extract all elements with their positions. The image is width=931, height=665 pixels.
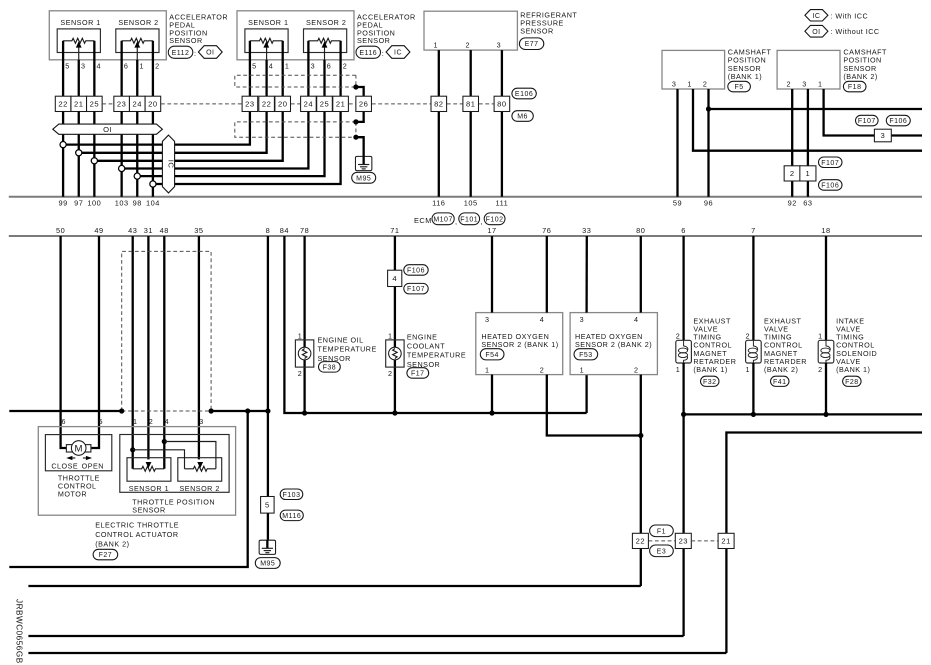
- svg-text:80: 80: [497, 99, 506, 108]
- svg-text:99: 99: [58, 199, 67, 208]
- svg-text:23: 23: [679, 536, 688, 545]
- TPS jumper pin1 to sensor2 left: [130, 447, 135, 452]
- svg-text:F101: F101: [460, 216, 478, 223]
- svg-text:,: ,: [480, 217, 483, 226]
- in-line connector boxes 22 23 with F1 E3 ovals: [649, 540, 676, 542]
- svg-text:M95: M95: [260, 561, 275, 568]
- svg-text:3: 3: [880, 131, 885, 140]
- svg-text:82: 82: [434, 99, 443, 108]
- connector ovals F106 F107 beside connector 4: [404, 265, 428, 276]
- svg-text:2: 2: [343, 62, 348, 71]
- svg-text:ENGINE: ENGINE: [407, 333, 438, 342]
- svg-text::: :: [194, 49, 197, 58]
- svg-text:F17: F17: [411, 370, 425, 377]
- svg-text:22: 22: [262, 99, 271, 108]
- svg-text:1: 1: [818, 80, 823, 89]
- svg-text:103: 103: [115, 199, 129, 208]
- svg-text:2: 2: [676, 332, 681, 341]
- svg-text:F107: F107: [821, 160, 839, 167]
- svg-text:2: 2: [465, 40, 470, 49]
- svg-text:OI: OI: [206, 50, 214, 57]
- svg-text:33: 33: [582, 226, 591, 235]
- svg-text:2: 2: [155, 62, 160, 71]
- svg-text:96: 96: [704, 199, 713, 208]
- legend OI hexagon Without ICC: [805, 25, 828, 37]
- svg-text:25: 25: [320, 99, 329, 108]
- svg-text:M6: M6: [517, 114, 528, 121]
- drop wire from branch to lower-left line 1: [9, 411, 247, 567]
- svg-text:E112: E112: [172, 50, 190, 57]
- ground oval M95 lower: [255, 558, 280, 569]
- connector ovals F107 F106 beside boxes 2 1: [819, 157, 843, 168]
- svg-text:OPEN: OPEN: [82, 461, 104, 470]
- svg-text:COOLANT: COOLANT: [407, 342, 445, 351]
- svg-text:1: 1: [687, 80, 692, 89]
- wire ECM pin 80 to F53 pin 4: [640, 236, 642, 313]
- wire from connector 26 down to shield dot 2: [356, 112, 364, 122]
- svg-text:3: 3: [672, 80, 677, 89]
- ground symbol M95 (throttle): [259, 540, 275, 554]
- throttle position sensor box: [120, 435, 229, 493]
- svg-text:1: 1: [746, 365, 751, 374]
- svg-text:: With ICC: : With ICC: [830, 11, 868, 20]
- svg-text:OI: OI: [103, 125, 112, 134]
- wire ECM pin 48 to TPS pin 4: [163, 236, 165, 469]
- svg-text:3: 3: [497, 40, 502, 49]
- right edge line to connector 21 down to lower-left line 4: [726, 433, 922, 654]
- svg-text:SENSOR 1: SENSOR 1: [129, 484, 169, 493]
- electric throttle control actuator outer box F27: [38, 427, 235, 516]
- camshaft position sensor bank2 box F18: [777, 50, 840, 89]
- svg-text:SENSOR 2 (BANK 1): SENSOR 2 (BANK 1): [481, 340, 558, 349]
- svg-text:5: 5: [65, 62, 70, 71]
- F53 connector oval: [574, 349, 598, 360]
- ECM bus line (lower): [9, 235, 922, 237]
- svg-text:84: 84: [280, 226, 289, 235]
- F32 connector oval: [701, 376, 720, 386]
- camshaft bank2 connector oval F18: [843, 81, 866, 92]
- svg-text:3: 3: [485, 315, 490, 324]
- bank2 pin1 wire elbow through connector 3 to right edge: [824, 89, 922, 136]
- F54 connector oval: [480, 349, 504, 360]
- dashed link E112-20 to E116-23: [161, 103, 242, 105]
- svg-text:3: 3: [311, 62, 316, 71]
- svg-text:21: 21: [74, 99, 83, 108]
- svg-text:SENSOR: SENSOR: [357, 36, 390, 45]
- svg-text:F53: F53: [579, 352, 593, 359]
- svg-text:F106: F106: [407, 267, 425, 274]
- throttle motor internal wires: [65, 447, 67, 449]
- bank2 pin3 wire to ECM pin 63: [807, 89, 809, 197]
- TPS sensor2 potentiometer: [185, 466, 216, 471]
- svg-text:,: ,: [455, 217, 458, 226]
- bank1 pin2 wire to ECM pin 96 with branch to right edge: [707, 89, 709, 197]
- svg-text:(BANK 1): (BANK 1): [693, 365, 727, 374]
- connector ovals F107 F106 above connector 3: [856, 115, 879, 126]
- exhaust valve timing control magnet retarder bank2 F41 (coil): [752, 236, 754, 340]
- return line corner up to HO2S bank2 pin 1: [585, 375, 587, 413]
- intake valve timing control solenoid valve bank1 F28 (coil): [825, 236, 827, 340]
- wire ECM pin 78 to oil temp sensor and return line: [303, 236, 305, 413]
- E112 sensor 1 potentiometer: [63, 38, 94, 43]
- wire ECM pin 84 elbow to sensor return line y=413: [284, 236, 586, 413]
- F54 pin1 wire to return line: [491, 375, 493, 413]
- svg-text:(BANK 2): (BANK 2): [95, 540, 129, 549]
- dashed link connector 23 to 21: [691, 540, 718, 542]
- svg-text:SENSOR 2 (BANK 2): SENSOR 2 (BANK 2): [575, 340, 652, 349]
- junction circles (option split) on E112 wires: [60, 142, 66, 148]
- shield junction dots lower pair: [353, 119, 358, 124]
- dashed link 82-81: [447, 103, 463, 105]
- svg-text:2: 2: [818, 365, 823, 374]
- solenoid return junction dots: [681, 412, 686, 417]
- svg-text:2: 2: [790, 169, 795, 178]
- svg-text:59: 59: [673, 199, 682, 208]
- refrigerant pressure sensor E77 box: [424, 11, 517, 50]
- svg-text:(BANK 1): (BANK 1): [836, 365, 870, 374]
- svg-text:20: 20: [278, 99, 287, 108]
- wire ECM pin 8 through branch to connector 5 and ground: [267, 236, 269, 497]
- svg-text:5: 5: [99, 417, 104, 426]
- E116 sensor 1 potentiometer: [250, 38, 283, 43]
- svg-text:SENSOR 2: SENSOR 2: [306, 18, 346, 27]
- wire ECM pin 43 to TPS pin 1: [132, 236, 134, 469]
- svg-text:M116: M116: [282, 513, 301, 520]
- svg-text:1: 1: [818, 332, 823, 341]
- svg-text:49: 49: [94, 226, 103, 235]
- svg-text:F103: F103: [283, 492, 301, 499]
- svg-text:4: 4: [634, 315, 639, 324]
- svg-text:92: 92: [788, 199, 797, 208]
- svg-text:F106: F106: [889, 118, 907, 125]
- svg-text:24: 24: [304, 99, 313, 108]
- shield dots on branch line: [119, 408, 124, 413]
- svg-text:22: 22: [58, 99, 67, 108]
- svg-text:F32: F32: [703, 379, 717, 386]
- shield wire from dot to connector 26: [356, 87, 364, 96]
- TPS sensor 2 inner box: [178, 458, 222, 482]
- svg-text:26: 26: [359, 99, 368, 108]
- svg-text:1: 1: [388, 331, 393, 340]
- svg-text:2: 2: [298, 369, 303, 378]
- svg-text:25: 25: [90, 99, 99, 108]
- svg-text:22: 22: [636, 536, 645, 545]
- svg-text:1: 1: [580, 366, 585, 375]
- svg-text:SENSOR: SENSOR: [132, 505, 165, 514]
- OI option banner: [53, 124, 163, 134]
- connector ovals F103 M116 beside connector 5: [280, 489, 303, 500]
- svg-text:F1: F1: [657, 528, 666, 535]
- svg-text:8: 8: [266, 226, 271, 235]
- svg-text:(BANK 1): (BANK 1): [728, 72, 762, 81]
- svg-text:F5: F5: [735, 84, 744, 91]
- in-line connector box 21: [718, 533, 734, 548]
- svg-text:F18: F18: [848, 84, 862, 91]
- dashed link E116-20 to E116-24: [291, 103, 301, 105]
- svg-text:TEMPERATURE: TEMPERATURE: [407, 351, 466, 360]
- svg-text:76: 76: [542, 226, 551, 235]
- svg-text:23: 23: [245, 99, 254, 108]
- svg-text:CLOSE: CLOSE: [51, 461, 78, 470]
- E77 connector oval: [519, 38, 543, 50]
- E116 sensor 2 inner box: [304, 29, 347, 53]
- svg-text:: Without ICC: : Without ICC: [830, 27, 879, 36]
- svg-text:F38: F38: [323, 364, 337, 371]
- svg-text:2: 2: [149, 417, 154, 426]
- svg-text:100: 100: [87, 199, 101, 208]
- motor direction arrows: [66, 456, 72, 460]
- svg-text:6: 6: [62, 417, 67, 426]
- svg-text:4: 4: [97, 62, 102, 71]
- E116 pin wires (pins 5,4,1,3,6,2): [249, 41, 251, 96]
- svg-text:3: 3: [802, 80, 807, 89]
- svg-text:21: 21: [336, 99, 345, 108]
- F54 pin2 wire elbow to bank2 heater line: [547, 375, 641, 436]
- F27 connector oval: [93, 549, 118, 560]
- svg-text:E106: E106: [515, 91, 533, 98]
- wire ECM pin 35 to TPS pin 3 (sensor2 wiper): [198, 236, 200, 459]
- E112 harness connector boxes 23 24 20: [114, 96, 130, 111]
- svg-text:5: 5: [265, 500, 270, 509]
- svg-text:ELECTRIC THROTTLE: ELECTRIC THROTTLE: [95, 520, 179, 529]
- wire ECM pin 31 to TPS pin 2 (sensor1 wiper): [147, 236, 149, 459]
- F28 connector oval: [843, 376, 862, 386]
- TPS sensor1 potentiometer: [133, 466, 165, 471]
- F17 connector oval: [407, 368, 429, 379]
- svg-text:MOTOR: MOTOR: [58, 490, 87, 499]
- dashed link E116-21 to 26: [349, 103, 356, 105]
- svg-text:2: 2: [634, 366, 639, 375]
- connector box 4 on coolant sensor wire: [388, 270, 402, 286]
- connector box 5 on ground wire: [261, 497, 275, 514]
- throttle control motor box: [45, 435, 111, 471]
- svg-text:35: 35: [194, 226, 203, 235]
- svg-text:21: 21: [721, 536, 730, 545]
- svg-text:E116: E116: [359, 50, 377, 57]
- bank1 pin2 junction dot: [706, 106, 711, 111]
- E112 wires from connectors to ECM pins 99 97 100 103 98 104: [62, 112, 64, 197]
- svg-text:105: 105: [464, 199, 478, 208]
- svg-text:4: 4: [269, 62, 274, 71]
- heated oxygen sensor 2 bank2 box F53: [570, 313, 657, 375]
- svg-text:1: 1: [133, 417, 138, 426]
- svg-text:OI: OI: [812, 29, 820, 36]
- svg-text:20: 20: [148, 99, 157, 108]
- svg-text:98: 98: [133, 199, 142, 208]
- dashed link E112-25 to E112-23: [102, 103, 113, 105]
- svg-text:50: 50: [56, 226, 65, 235]
- bank2 pin2 wire to ECM pin 92: [791, 89, 793, 197]
- exhaust valve timing control magnet retarder bank1 F32 (coil): [682, 236, 684, 340]
- svg-text:3: 3: [199, 417, 204, 426]
- svg-text:E3: E3: [657, 548, 667, 555]
- E112 connector oval E112 with OI tag: [168, 46, 193, 58]
- svg-text:24: 24: [133, 99, 142, 108]
- svg-text:23: 23: [117, 99, 126, 108]
- dashed link 81-80: [479, 103, 494, 105]
- svg-text:IC: IC: [167, 160, 176, 169]
- svg-text:ENGINE OIL: ENGINE OIL: [318, 336, 364, 345]
- shield dashed box over E116 wires (lower): [235, 122, 356, 137]
- svg-text:F27: F27: [99, 552, 113, 559]
- E112 sensor 2 potentiometer: [122, 38, 153, 43]
- wire ECM pin 71 through connector 4 to coolant temp sensor: [394, 236, 396, 413]
- legend IC hexagon With ICC: [805, 10, 828, 21]
- svg-text:1: 1: [485, 366, 490, 375]
- in-line connector boxes 2 and 1 on bank2 wires: [784, 166, 800, 181]
- sensor ground branch line y=411: [9, 410, 121, 412]
- E116 sensor 2 potentiometer: [308, 38, 340, 43]
- svg-text:TEMPERATURE: TEMPERATURE: [318, 345, 377, 354]
- svg-text:4: 4: [392, 274, 397, 283]
- svg-text:F41: F41: [773, 379, 787, 386]
- E112 pin wires to connectors (pins 5,3,4,6,1,2): [62, 41, 64, 96]
- wire ECM pin 17 to F54 pin 3: [491, 236, 493, 313]
- svg-text:M: M: [74, 443, 83, 454]
- svg-text:(BANK 2): (BANK 2): [843, 72, 877, 81]
- svg-text:F107: F107: [407, 286, 425, 293]
- ground oval M95: [352, 172, 376, 183]
- svg-text:31: 31: [144, 226, 153, 235]
- F53 pin2 wire down through connector 22 to lower-left line 2: [640, 375, 642, 586]
- svg-text:F107: F107: [858, 118, 876, 125]
- dashed shield box around TPS wires: [122, 251, 211, 411]
- svg-text:2: 2: [787, 80, 792, 89]
- svg-text:3: 3: [580, 315, 585, 324]
- E77 harness connector boxes 82 81 80: [431, 96, 447, 111]
- wire ECM pin 49 to throttle motor pin 5: [91, 236, 99, 448]
- svg-text:IC: IC: [394, 50, 402, 57]
- svg-text:48: 48: [160, 226, 169, 235]
- wire ECM pin 76 to F54 pin 4: [546, 236, 548, 313]
- svg-text:M107: M107: [433, 216, 453, 223]
- svg-text:SENSOR: SENSOR: [520, 26, 553, 35]
- svg-text:2: 2: [388, 369, 393, 378]
- svg-text:3: 3: [81, 62, 86, 71]
- solenoid common return line to right edge: [684, 413, 922, 415]
- E116 harness connector boxes 23 22 20: [242, 96, 258, 111]
- camshaft bank1 connector oval F5: [728, 81, 751, 92]
- E116 harness connector boxes 24 25 21: [301, 96, 317, 111]
- svg-text:1: 1: [298, 331, 303, 340]
- svg-text:63: 63: [803, 199, 812, 208]
- svg-text:M95: M95: [356, 175, 371, 182]
- E112 harness connector boxes 22 21 25: [55, 96, 71, 111]
- svg-text:6: 6: [327, 62, 332, 71]
- svg-text:CONTROL ACTUATOR: CONTROL ACTUATOR: [95, 530, 178, 539]
- bank1 pin1 wire elbow to right edge: [693, 89, 922, 151]
- svg-text:SENSOR 1: SENSOR 1: [248, 18, 288, 27]
- svg-text:17: 17: [487, 226, 496, 235]
- TPS jumper pin4 to sensor2 right: [162, 439, 167, 444]
- shield dashed box over E116 wires (upper): [235, 75, 356, 87]
- E112 sensor 1 inner box: [57, 29, 100, 53]
- branch wires from E112 circles to E116 connector wires (option link): [63, 112, 250, 145]
- shield junction dot upper: [353, 84, 358, 89]
- TPS sensor 1 inner box: [127, 458, 171, 482]
- heated oxygen sensor 2 bank1 box F54: [476, 313, 563, 375]
- svg-text:104: 104: [146, 199, 160, 208]
- svg-text:2: 2: [703, 80, 708, 89]
- svg-text:1: 1: [676, 365, 681, 374]
- svg-text:6: 6: [124, 62, 129, 71]
- throttle control motor symbol M: [66, 445, 73, 452]
- wire ECM pin 50 to throttle motor pin 6: [61, 236, 67, 448]
- wire from shield dot to ground M95: [356, 137, 364, 156]
- ground symbol M95 (E116 shield): [355, 156, 371, 170]
- E112 sensor 2 inner box: [116, 29, 159, 53]
- svg-text:111: 111: [496, 199, 509, 208]
- svg-text:SENSOR 1: SENSOR 1: [60, 18, 100, 27]
- svg-text:F106: F106: [821, 182, 839, 189]
- svg-text:(BANK 2): (BANK 2): [764, 365, 798, 374]
- svg-text:SENSOR 2: SENSOR 2: [118, 18, 158, 27]
- svg-text:78: 78: [300, 226, 309, 235]
- svg-text:JRBWC0656GB: JRBWC0656GB: [15, 599, 24, 664]
- bank1 pin3 wire to ECM pin 59: [676, 89, 678, 197]
- svg-text:IC: IC: [812, 13, 820, 20]
- wire from F32 return down through connector 23 to lower-left line 3: [682, 414, 684, 636]
- svg-text:1: 1: [285, 62, 290, 71]
- svg-text:SENSOR 2: SENSOR 2: [180, 484, 220, 493]
- svg-text:1: 1: [139, 62, 144, 71]
- svg-text:4: 4: [165, 417, 170, 426]
- svg-text:4: 4: [540, 315, 545, 324]
- svg-text:F54: F54: [485, 352, 499, 359]
- svg-text:F102: F102: [486, 216, 504, 223]
- svg-text:43: 43: [128, 226, 137, 235]
- connector box 26: [356, 96, 372, 111]
- svg-text:71: 71: [390, 226, 399, 235]
- svg-text:97: 97: [74, 199, 83, 208]
- svg-text:116: 116: [432, 199, 445, 208]
- svg-text::: :: [382, 49, 385, 58]
- E77 wires pins 1 2 3 to ECM pins 116 105 111: [438, 50, 440, 197]
- svg-text:E77: E77: [525, 41, 539, 48]
- accelerator pedal position sensor E112 outer box: [49, 11, 166, 60]
- svg-text:SENSOR: SENSOR: [169, 36, 202, 45]
- wire ECM pin 33 to F53 pin 3: [585, 236, 588, 313]
- connector box 3 on bank2 pin1 line: [874, 129, 891, 142]
- svg-text:2: 2: [540, 366, 545, 375]
- dashed link 26 to E77-82: [372, 103, 431, 105]
- accelerator pedal position sensor E116 outer box: [237, 11, 354, 60]
- svg-text:80: 80: [636, 226, 645, 235]
- svg-text:18: 18: [821, 226, 830, 235]
- E116 connector oval E116 with IC tag: [356, 46, 381, 58]
- svg-text:ECM: ECM: [414, 216, 432, 225]
- IC option banner (vertical): [162, 135, 174, 193]
- svg-text:6: 6: [681, 226, 686, 235]
- svg-text:5: 5: [252, 62, 257, 71]
- F38 connector oval: [319, 362, 341, 373]
- svg-text:81: 81: [466, 99, 475, 108]
- engine coolant temperature sensor F17 (thermistor): [386, 340, 404, 367]
- ECM bus line (upper): [9, 196, 922, 198]
- camshaft position sensor bank1 box F5: [662, 50, 725, 89]
- engine oil temperature sensor F38 (thermistor): [295, 340, 313, 367]
- svg-text:2: 2: [746, 332, 751, 341]
- connector ovals E106 and M6: [512, 88, 536, 99]
- F41 connector oval: [771, 376, 790, 386]
- svg-text:7: 7: [751, 226, 756, 235]
- svg-text:F28: F28: [845, 379, 859, 386]
- E116 sensor 1 inner box: [245, 29, 288, 53]
- svg-text:1: 1: [806, 169, 811, 178]
- svg-text:1: 1: [434, 40, 439, 49]
- branch dot to throttle actuator shield drop: [245, 408, 250, 413]
